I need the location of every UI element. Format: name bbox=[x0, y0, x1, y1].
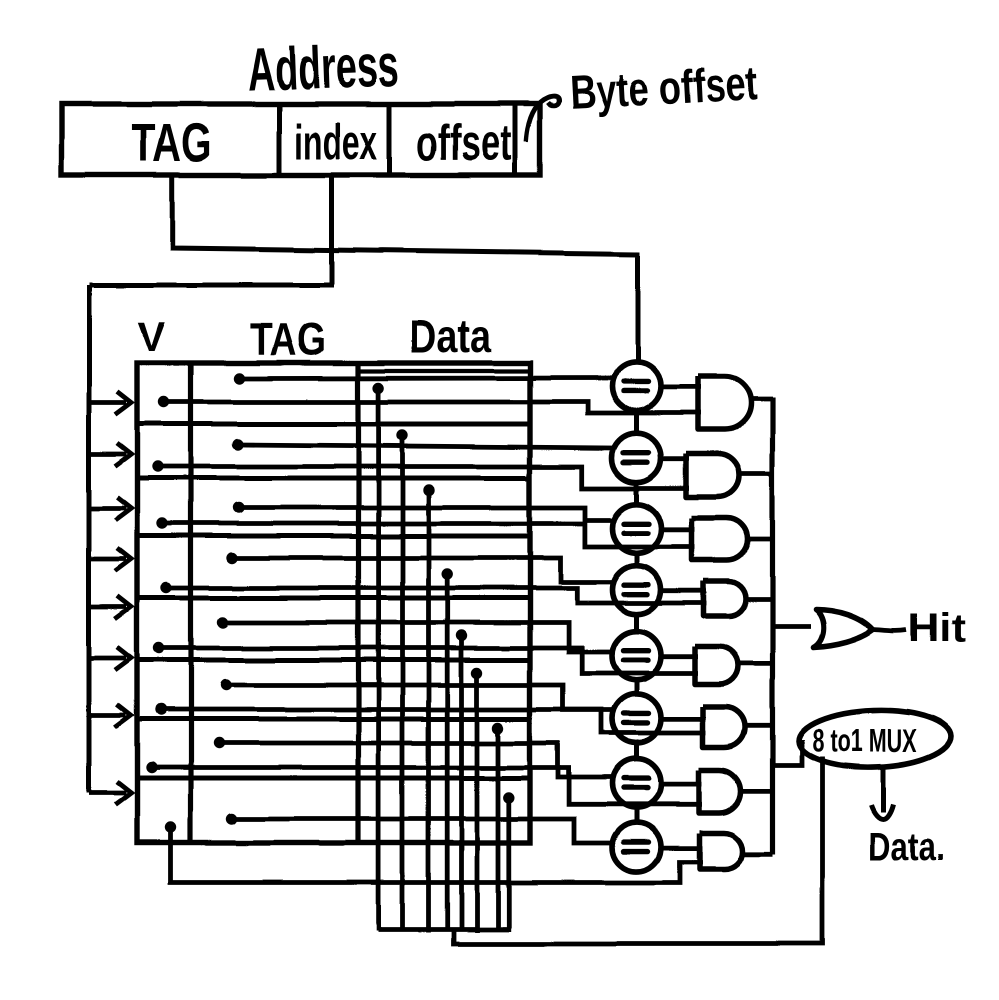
comparator =3 equals sign bbox=[624, 523, 649, 533]
AND gate 2 output wire bbox=[737, 472, 773, 477]
comparator 8 output wire bbox=[661, 846, 702, 851]
row 6 Data dot bbox=[471, 667, 482, 678]
row 2 data wire down bbox=[400, 435, 405, 931]
comparator chain segment 1 bbox=[634, 411, 639, 433]
row 4 Data dot bbox=[442, 568, 453, 579]
row 7 data wire down bbox=[496, 728, 501, 930]
row 1 Data dot bbox=[373, 382, 384, 393]
row select arrow 2 bbox=[89, 443, 131, 466]
comparator =5 equals sign bbox=[624, 651, 649, 661]
row 8 valid wire to AND gate bbox=[171, 828, 702, 883]
AND gate 7 output wire bbox=[739, 789, 773, 794]
row 8 TAG dot bbox=[226, 813, 237, 824]
comparator =5 circle bbox=[612, 631, 661, 680]
svg-text:Byte offset: Byte offset bbox=[568, 56, 759, 119]
row 2 tag wire to comparator bbox=[238, 445, 616, 449]
svg-text:offset: offset bbox=[417, 115, 512, 171]
column divider V|TAG bbox=[188, 363, 193, 843]
divider TAG/index bbox=[277, 104, 282, 175]
comparator =7 equals sign bbox=[624, 778, 649, 788]
table top edge second stroke bbox=[359, 369, 531, 373]
svg-text:Data: Data bbox=[409, 310, 491, 362]
row 2 Data dot bbox=[397, 429, 408, 440]
row select arrow 8 bbox=[89, 782, 131, 805]
row select arrow 4 bbox=[89, 548, 131, 571]
comparator =4 circle bbox=[612, 565, 661, 614]
row 5 data wire down bbox=[459, 636, 464, 932]
row 3 V dot bbox=[157, 518, 168, 529]
row 5 Data dot bbox=[456, 630, 467, 641]
row 5 tag wire to comparator bbox=[223, 623, 615, 653]
wire OR to Hit bbox=[874, 630, 908, 631]
svg-text:Address: Address bbox=[246, 31, 400, 103]
comparator =1 circle bbox=[612, 362, 661, 411]
comparator =6 circle bbox=[612, 694, 661, 743]
row 7 Data dot bbox=[492, 722, 503, 733]
row 3 data wire down bbox=[426, 490, 431, 932]
AND gate 4 bbox=[704, 581, 746, 616]
row separator 5 bbox=[137, 658, 530, 663]
divider index/offset bbox=[388, 104, 393, 175]
svg-text:Data.: Data. bbox=[868, 825, 944, 869]
column divider TAG|Data bbox=[356, 363, 361, 843]
wire data bus to MUX bbox=[454, 757, 823, 944]
AND gate 6 output wire bbox=[743, 723, 773, 728]
svg-text:TAG: TAG bbox=[250, 313, 326, 365]
svg-text:index: index bbox=[294, 114, 378, 170]
row 6 V dot bbox=[155, 704, 166, 715]
comparator chain segment 6 bbox=[634, 743, 639, 759]
row 7 V dot bbox=[146, 762, 157, 773]
table outer box bbox=[137, 363, 530, 843]
OR gate bbox=[814, 609, 874, 647]
mux ellipse bbox=[798, 708, 952, 770]
row 4 TAG dot bbox=[226, 552, 237, 563]
row 3 Data dot bbox=[423, 484, 434, 495]
row 6 TAG dot bbox=[220, 679, 231, 690]
AND gate 3 output wire bbox=[746, 537, 773, 542]
wire bus to OR gate bbox=[773, 624, 812, 629]
wire index field to row-select bus bbox=[89, 175, 332, 285]
row separator 4 bbox=[137, 596, 530, 601]
svg-text:TAG: TAG bbox=[132, 113, 212, 173]
AND gate 5 output wire bbox=[736, 661, 773, 666]
mux output arrow bbox=[871, 768, 893, 819]
wire row-select bus vertical bbox=[87, 285, 92, 793]
row 2 V dot bbox=[152, 461, 163, 472]
row 3 tag wire to comparator bbox=[239, 508, 616, 521]
comparator =4 equals sign bbox=[624, 585, 649, 595]
AND gate 1 bbox=[698, 377, 751, 430]
wire TAG field to comparator chain bbox=[173, 175, 638, 363]
row 5 TAG dot bbox=[217, 617, 228, 628]
svg-text:8 to1 MUX: 8 to1 MUX bbox=[813, 723, 917, 759]
row select arrow 7 bbox=[89, 704, 131, 727]
comparator 2 output wire bbox=[661, 456, 689, 461]
comparator chain segment 5 bbox=[634, 680, 639, 694]
AND gate 5 bbox=[695, 647, 738, 685]
row 5 V dot bbox=[153, 642, 164, 653]
comparator chain segment 7 bbox=[634, 808, 639, 823]
AND gate 4 output wire bbox=[744, 597, 773, 602]
row 6 valid wire to AND gate bbox=[161, 710, 706, 734]
comparator chain segment 4 bbox=[634, 614, 639, 631]
AND gate 1 output wire bbox=[749, 397, 773, 402]
row separator 7 bbox=[137, 776, 530, 781]
AND output bus vertical bbox=[770, 398, 775, 854]
row 4 valid wire to AND gate bbox=[167, 588, 708, 603]
AND gate 8 bbox=[699, 833, 742, 869]
row 7 TAG dot bbox=[213, 737, 224, 748]
row 6 tag wire to comparator bbox=[226, 685, 615, 710]
row 8 V dot bbox=[165, 822, 176, 833]
comparator 4 output wire bbox=[661, 588, 707, 593]
row 5 valid wire to AND gate bbox=[159, 648, 698, 674]
comparator 7 output wire bbox=[661, 782, 702, 787]
row 3 TAG dot bbox=[233, 502, 244, 513]
comparator 3 output wire bbox=[661, 527, 695, 532]
row separator 6 bbox=[137, 717, 530, 722]
row select arrow 5 bbox=[89, 596, 131, 619]
row 1 data wire down bbox=[376, 388, 381, 930]
comparator =8 equals sign bbox=[624, 842, 649, 852]
comparator chain segment 3 bbox=[634, 553, 639, 565]
address field box bbox=[62, 104, 540, 175]
AND gate 7 bbox=[699, 770, 741, 813]
row 8 tag wire to comparator bbox=[232, 819, 615, 843]
AND gate 6 bbox=[703, 707, 745, 748]
row 8 data wire down bbox=[506, 798, 511, 932]
row 3 valid wire to AND gate bbox=[163, 524, 696, 547]
row select arrow 3 bbox=[89, 497, 131, 520]
data bus bottom bar bbox=[378, 927, 509, 932]
row separator 1 bbox=[137, 422, 530, 427]
AND gate 8 output wire bbox=[740, 851, 773, 856]
row 4 tag wire to comparator bbox=[232, 558, 615, 582]
AND gate 2 bbox=[686, 454, 739, 497]
svg-text:V: V bbox=[138, 313, 166, 360]
row 8 Data dot bbox=[503, 792, 514, 803]
comparator =3 circle bbox=[612, 504, 661, 553]
row separator 3 bbox=[137, 534, 530, 539]
comparator =7 circle bbox=[612, 759, 661, 808]
comparator 1 output wire bbox=[661, 385, 701, 390]
row 7 valid wire to AND gate bbox=[152, 768, 703, 805]
row 1 valid wire to AND gate bbox=[164, 402, 702, 413]
comparator =2 equals sign bbox=[624, 453, 649, 463]
comparator 6 output wire bbox=[661, 717, 706, 722]
byte offset arrow bbox=[526, 97, 559, 142]
comparator =8 circle bbox=[612, 823, 661, 872]
row 4 data wire down bbox=[445, 574, 450, 930]
wire AND bus to MUX select bbox=[773, 740, 803, 766]
row 7 tag wire to comparator bbox=[219, 743, 615, 777]
row 1 TAG dot bbox=[233, 373, 244, 384]
comparator =1 equals sign bbox=[624, 381, 649, 391]
row separator 2 bbox=[137, 476, 530, 481]
comparator =2 circle bbox=[612, 433, 661, 482]
row select arrow 6 bbox=[89, 647, 131, 670]
row 4 V dot bbox=[161, 582, 172, 593]
row select arrow 1 bbox=[89, 392, 131, 415]
row 1 V dot bbox=[158, 396, 169, 407]
row 6 data wire down bbox=[475, 673, 480, 932]
row 1 tag wire to comparator bbox=[239, 376, 615, 381]
row 2 valid wire to AND gate bbox=[158, 467, 690, 489]
comparator 5 output wire bbox=[661, 654, 698, 659]
svg-text:Hit: Hit bbox=[909, 607, 966, 651]
comparator chain segment 2 bbox=[634, 482, 639, 504]
comparator =6 equals sign bbox=[624, 713, 649, 723]
AND gate 3 bbox=[692, 518, 748, 560]
row 2 TAG dot bbox=[232, 439, 243, 450]
divider offset/byte bbox=[513, 104, 518, 175]
